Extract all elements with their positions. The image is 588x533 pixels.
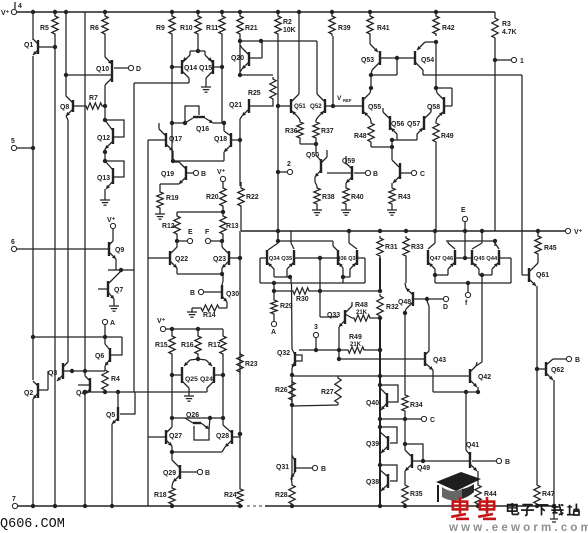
svg-text:3: 3 [314,324,318,331]
wire Q10 base [64,73,111,77]
resistor R19 [157,190,179,210]
resistor R41 [367,14,390,36]
svg-text:Q52: Q52 [310,103,322,110]
svg-text:Q38: Q38 [366,479,379,486]
resistor R31 [377,236,398,258]
resistor R14 [192,305,221,319]
resistor R49 21K horizontal [346,334,382,353]
junction top bus [434,10,438,14]
transistor Q38 diode-connected [366,465,397,491]
wire y41 Q20 [238,36,263,77]
ground Q7 [109,302,119,311]
svg-text:21K: 21K [356,310,368,316]
transistor Q58 [427,88,452,121]
terminal pin 6 [11,239,104,252]
junction top bus [238,10,242,14]
svg-text:Q57: Q57 [407,121,420,128]
terminal C upper [411,170,425,178]
wire C line y419 [380,418,421,420]
wire R2 column [276,36,280,243]
svg-text:R35: R35 [410,491,423,498]
svg-text:B: B [205,470,210,477]
wire column x66 Q8 collector [65,12,67,96]
resistor R29 [271,298,293,316]
svg-text:V⁺: V⁺ [217,169,226,176]
junction bottom bus [476,504,480,508]
ground R19 [155,210,165,219]
svg-text:R9: R9 [156,25,165,32]
wire y292 R30 row [274,290,291,292]
wire Q48 collector to R34 [403,311,407,393]
junction R23 column [238,432,242,436]
terminal pin 3 [313,324,318,352]
svg-text:21K: 21K [350,342,362,348]
wire x522 down [522,75,524,275]
wire Q56 Q57 emitters [371,138,417,149]
terminal pin 7 [12,496,18,509]
resistor R23 [237,352,258,374]
resistor R42 [433,14,455,36]
junction mid bus [480,229,484,233]
terminal f [465,283,471,307]
svg-text:Q28: Q28 [216,433,229,440]
junction bottom bus [31,504,35,508]
wire y371 [72,369,105,373]
junction top bus [220,10,224,14]
svg-text:R25: R25 [248,90,261,97]
svg-text:R43: R43 [398,194,411,201]
svg-text:R12: R12 [162,223,175,230]
svg-text:R13: R13 [226,223,239,230]
wire Q48 emitter top [0,0,1,1]
svg-text:Q31: Q31 [276,464,289,471]
resistor R49 [433,121,454,144]
resistor R40 [343,186,364,206]
wire column x134 [133,83,135,392]
svg-text:V⁺: V⁺ [107,217,116,224]
wire column x172 lower [170,356,174,420]
ground R38 [312,206,322,215]
transistor Q20 [231,41,262,72]
svg-text:V⁺: V⁺ [574,229,583,236]
transistor Q5 diode-connected [106,392,135,424]
svg-text:Q43: Q43 [433,357,446,364]
svg-text:Q3: Q3 [48,370,57,377]
resistor R39 [329,14,351,36]
terminal V+ right [565,228,582,236]
svg-text:E: E [461,207,466,214]
svg-text:Q49: Q49 [417,465,430,472]
svg-text:Q40: Q40 [366,400,379,407]
transistor Q32 diode-connected [277,349,302,368]
wire y392 [83,390,189,394]
junction top bus [297,10,301,14]
terminal pin 4 V+ [1,2,22,17]
svg-text:Q606.COM: Q606.COM [0,517,65,532]
svg-text:1: 1 [520,58,524,65]
junction R26 top [290,373,294,377]
resistor R43 [389,186,411,206]
transistor Q3 [48,362,74,381]
wire column x240 upper [239,119,241,186]
svg-text:C: C [420,171,425,178]
wire Q53 collector down [369,75,373,90]
junction bottom bus [110,504,114,508]
ground Q25 Q24 [184,392,194,401]
wire R36 R37 join [300,140,318,146]
resistor R2 10K [275,14,296,36]
svg-text:Q7: Q7 [114,287,123,294]
junction bottom bus [552,504,556,508]
terminal A left [102,319,115,337]
svg-text:R49: R49 [349,334,362,341]
wire column x85 [84,12,86,506]
terminal pin 2 [276,161,293,175]
transistor Q24 [189,359,225,392]
svg-text:D: D [443,304,448,311]
wire y461 Q41 base [423,460,470,462]
resistor R24 [224,487,243,506]
svg-text:7: 7 [12,496,16,503]
junction x240 Q18 [238,138,242,142]
transistor Q12 diode-connected [97,120,124,154]
junction mid bus [433,229,437,233]
junction Q62 base [535,367,539,371]
wire Vref y106 [278,95,358,108]
transistor Q22 [148,241,188,274]
svg-text:B: B [190,290,195,297]
svg-text:2: 2 [287,161,291,168]
terminal B Q30 [190,289,204,297]
svg-text:R5: R5 [40,25,49,32]
svg-text:B: B [321,466,326,473]
svg-text:Q33: Q33 [327,312,340,319]
resistor R27 [292,376,341,406]
resistor R16 [181,329,201,356]
svg-text:A: A [271,329,276,336]
wire y41 Q52 feed [240,41,317,94]
terminal pin 5 [11,138,35,151]
junction bottom bus [535,504,539,508]
svg-text:R45: R45 [544,245,557,252]
wire column x172 mid [171,36,173,162]
wire y283 right [435,281,511,285]
resistor R37 [313,120,334,140]
svg-text:R17: R17 [208,342,221,349]
wire R31 bold column [379,258,381,292]
svg-text:F: F [205,229,209,236]
transistor Q21 [229,99,257,119]
transistor Q56 [383,108,404,140]
wire y75 to pin1 column [423,74,522,76]
junction top bus [64,10,68,14]
svg-text:R33: R33 [411,244,424,251]
wire V+ mid bus [241,230,565,232]
svg-text:R47: R47 [542,491,555,498]
resistor R15 [155,329,175,356]
wire R42 to Q58 [434,42,438,90]
wire Q42 collector column [481,275,483,362]
terminal B Q19 [193,170,206,178]
junction bottom bus [403,504,407,508]
svg-text:Q16: Q16 [196,126,209,133]
transistor Q49 [405,444,430,483]
svg-text:R19: R19 [166,195,179,202]
svg-text:Q42: Q42 [478,374,491,381]
transistor Q26 diode-connected [185,412,210,440]
svg-text:R49: R49 [441,133,454,140]
svg-text:R37: R37 [321,128,334,135]
wire bold column x380 [379,318,381,507]
svg-text:Q13: Q13 [97,175,110,182]
ground Q13 [100,196,110,205]
wire column x33 [32,12,34,506]
svg-text:D: D [136,66,141,73]
wire y241 Q44 [446,239,497,246]
junction top bus [196,10,200,14]
transistor Q50 [306,144,327,186]
wire R16 to Q25 Q24 [196,356,200,361]
wire y123 Q16 row [170,121,226,125]
transistor Q28 [216,418,242,452]
resistor R25 loop [240,75,276,106]
resistor R11 [206,14,225,36]
wire Q41 collector [465,392,467,448]
svg-text:Q27: Q27 [169,433,182,440]
svg-text:Q19: Q19 [161,171,174,178]
svg-text:Q14: Q14 [184,65,197,72]
terminal E left [175,229,193,244]
svg-text:Q36 Q37: Q36 Q37 [336,256,358,262]
junction top bus [53,10,57,14]
svg-text:R27: R27 [321,389,334,396]
transistor Q29 [163,452,197,486]
transistor Q62 [537,359,566,507]
transistor Q40 diode-connected [366,385,398,410]
wire y83 to Q14 collector [134,82,189,84]
svg-text:Q18: Q18 [214,136,227,143]
resistor R26 [275,380,295,407]
svg-text:R32: R32 [386,304,399,311]
wire column x148 to bus [147,437,149,506]
watermark www.eeworm.com [448,522,588,533]
svg-text:4: 4 [18,3,22,10]
resistor R13 [220,214,239,236]
terminal pin 1 [493,40,524,231]
terminal V+ R20 [217,169,226,182]
resistor R44 [475,483,497,506]
wire to C follower [391,140,393,160]
svg-text:Q55: Q55 [368,104,381,111]
svg-text:R7: R7 [89,95,98,102]
svg-text:R26: R26 [275,387,288,394]
svg-text:Q47 Q46: Q47 Q46 [430,256,454,262]
resistor R48 21K horizontal [345,302,380,321]
svg-text:R24: R24 [224,492,237,499]
svg-text:R34: R34 [410,402,423,409]
svg-text:Q23: Q23 [213,256,226,263]
svg-text:Q10: Q10 [96,66,109,73]
wire y292 to R32 [320,289,382,293]
terminal A mid [271,316,277,336]
resistor R45 [535,231,557,256]
svg-text:R48: R48 [355,302,368,309]
terminal V+ R15 R16 R17 [157,318,166,332]
resistor R35 [402,483,423,506]
wire column x223 lower [221,356,225,420]
svg-text:Q15: Q15 [199,65,212,72]
transistor Q54 [397,40,438,75]
wire y274 Q22 Q23 emitters [177,272,224,276]
resistor R21 [237,14,258,36]
wire column x105 Q10-Q12-Q13 [104,36,106,122]
wire column x222 mid [221,36,223,123]
junction top bus [170,10,174,14]
transistor pair Q34 Q35 [260,231,340,279]
resistor R4 [102,368,120,392]
transistor Q10 [96,57,112,88]
transistor Q48 [398,283,429,313]
svg-text:V⁺: V⁺ [1,10,10,17]
resistor R12 [162,214,180,236]
transistor Q59 [327,156,355,186]
junction bottom bus [238,504,242,508]
wire column x68 Q8 emitter to Q3 [67,120,69,362]
terminal C lower [421,416,435,424]
resistor R18 [154,486,175,506]
resistor R32 [377,294,399,320]
svg-text:Q61: Q61 [536,272,549,279]
wire Q42 collector join [476,362,482,366]
svg-text:R23: R23 [245,361,258,368]
transistor Q41 [466,442,479,483]
svg-text:6: 6 [11,239,15,246]
transistor Q9 [104,229,124,270]
transistor Q42 [466,362,491,392]
resistor R38 [314,186,335,206]
svg-text:Q45 Q44: Q45 Q44 [474,256,498,262]
resistor R33 [403,236,424,258]
transistor Q39 diode-connected [366,427,397,453]
terminal V+ Q9 [107,217,116,229]
svg-text:REF: REF [343,98,352,103]
wire R29 top [272,283,276,298]
svg-text:Q39: Q39 [366,441,379,448]
resistor R5 [40,14,58,36]
junction mid bus [404,229,408,233]
wire Q7 collector top [108,268,134,272]
svg-text:Q54: Q54 [421,57,434,64]
transistor C follower [392,160,411,186]
svg-text:R20: R20 [206,194,219,201]
watermark graduation cap logo [436,472,481,502]
terminal B Q59 [354,170,378,178]
transistor Q13 diode-connected [97,161,124,196]
wire Q14 Q15 emitter top [190,36,205,53]
junction top bus [31,10,35,14]
junction mid bus [347,229,351,233]
wire column x148 [147,140,149,437]
wire R33 down [405,258,407,283]
transistor Q18 [214,123,240,161]
transistor Q1 [24,39,57,55]
svg-text:V: V [337,95,342,102]
svg-text:B: B [505,459,510,466]
svg-text:Q50: Q50 [306,152,319,159]
svg-text:R42: R42 [442,25,455,32]
transistor pair Q47 Q46 [428,231,467,283]
svg-text:R6: R6 [90,25,99,32]
wire y376 Q42 base [293,374,466,378]
svg-text:B: B [575,357,580,364]
junction x380 y419 [378,417,382,421]
svg-text:C: C [430,417,435,424]
junction x380 y465 [378,463,382,467]
svg-text:V⁺: V⁺ [157,318,166,325]
wire column x240 lower [239,231,241,487]
svg-text:Q5: Q5 [106,412,115,419]
svg-text:Q25: Q25 [185,376,198,383]
transistor Q6 diode-connected [95,337,122,368]
junction Q12 top [103,118,107,122]
svg-text:4.7K: 4.7K [502,29,517,36]
transistor Q19 [160,162,193,190]
svg-text:R29: R29 [280,303,293,310]
svg-text:R36: R36 [285,128,298,135]
transistor Q2 [24,371,48,403]
terminal D Q10 [114,65,141,73]
wire y452 Q27 Q28 emitters [170,450,222,454]
wire R34 R35 column [403,413,407,446]
svg-text:w w w . e e w o r m . c o m: w w w . e e w o r m . c o m [448,522,588,533]
junction mid bus [536,229,540,233]
wire x320 Q33 base [318,258,338,317]
resistor R6 [90,14,108,36]
wire y329 [166,327,223,331]
svg-text:Q20: Q20 [231,55,244,62]
terminal B Q62 [566,356,580,364]
junction top bus [276,10,280,14]
svg-text:Q29: Q29 [163,470,176,477]
wire y241 Q36 feed [278,241,338,251]
svg-text:Q22: Q22 [175,256,188,263]
wire column x55 [54,36,56,506]
watermark Q606.COM [0,517,65,532]
svg-text:A: A [110,320,115,327]
resistor R30 [291,288,320,303]
transistor Q55 [358,88,381,121]
transistor Q16 horizontal diode [185,106,224,133]
svg-text:R10: R10 [180,25,193,32]
watermark chongchong red logo [451,497,496,519]
wire column x299 [298,12,300,94]
transistor Q15 [199,51,224,83]
transistor Q23 [213,241,242,274]
svg-text:R3: R3 [502,21,511,28]
svg-text:R21: R21 [245,25,258,32]
svg-text:Q9: Q9 [115,247,124,254]
svg-text:R31: R31 [385,244,398,251]
junction bottom bus [290,504,294,508]
ground R43 [387,206,397,215]
resistor R20 [206,182,226,208]
svg-text:5: 5 [11,138,15,145]
wire y359 Q43 base [337,350,421,361]
junction bottom bus [378,504,382,508]
riser Q30 collector [222,275,223,285]
svg-text:B: B [373,171,378,178]
svg-text:Q41: Q41 [466,442,479,449]
